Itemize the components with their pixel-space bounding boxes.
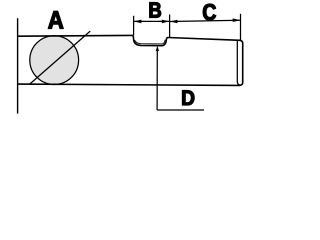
arrow C left — [170, 20, 178, 24]
label A — [48, 11, 63, 28]
label B — [150, 3, 161, 18]
groove inner thin line — [135, 40, 166, 44]
extension line right of C — [240, 14, 242, 40]
dimension line B — [134, 20, 170, 22]
part outline with groove — [18, 35, 243, 85]
arrow C right — [233, 18, 241, 22]
right end inner edge line — [237, 41, 239, 85]
label C — [203, 4, 216, 20]
arrow B left — [134, 20, 142, 24]
left end vertical line — [17, 18, 19, 113]
extension line between B and C — [169, 15, 171, 38]
leader line D (vertical with up arrow into groove) — [156, 48, 158, 110]
leader D underline — [157, 109, 204, 111]
dimension line C — [170, 20, 241, 21]
circle A (hole, gray filled) — [30, 36, 79, 85]
arrow B right — [162, 20, 170, 24]
diagonal line through circle — [29, 31, 90, 84]
leader D arrowhead — [156, 46, 159, 51]
extension line left of B — [133, 16, 135, 36]
label D — [182, 91, 194, 106]
